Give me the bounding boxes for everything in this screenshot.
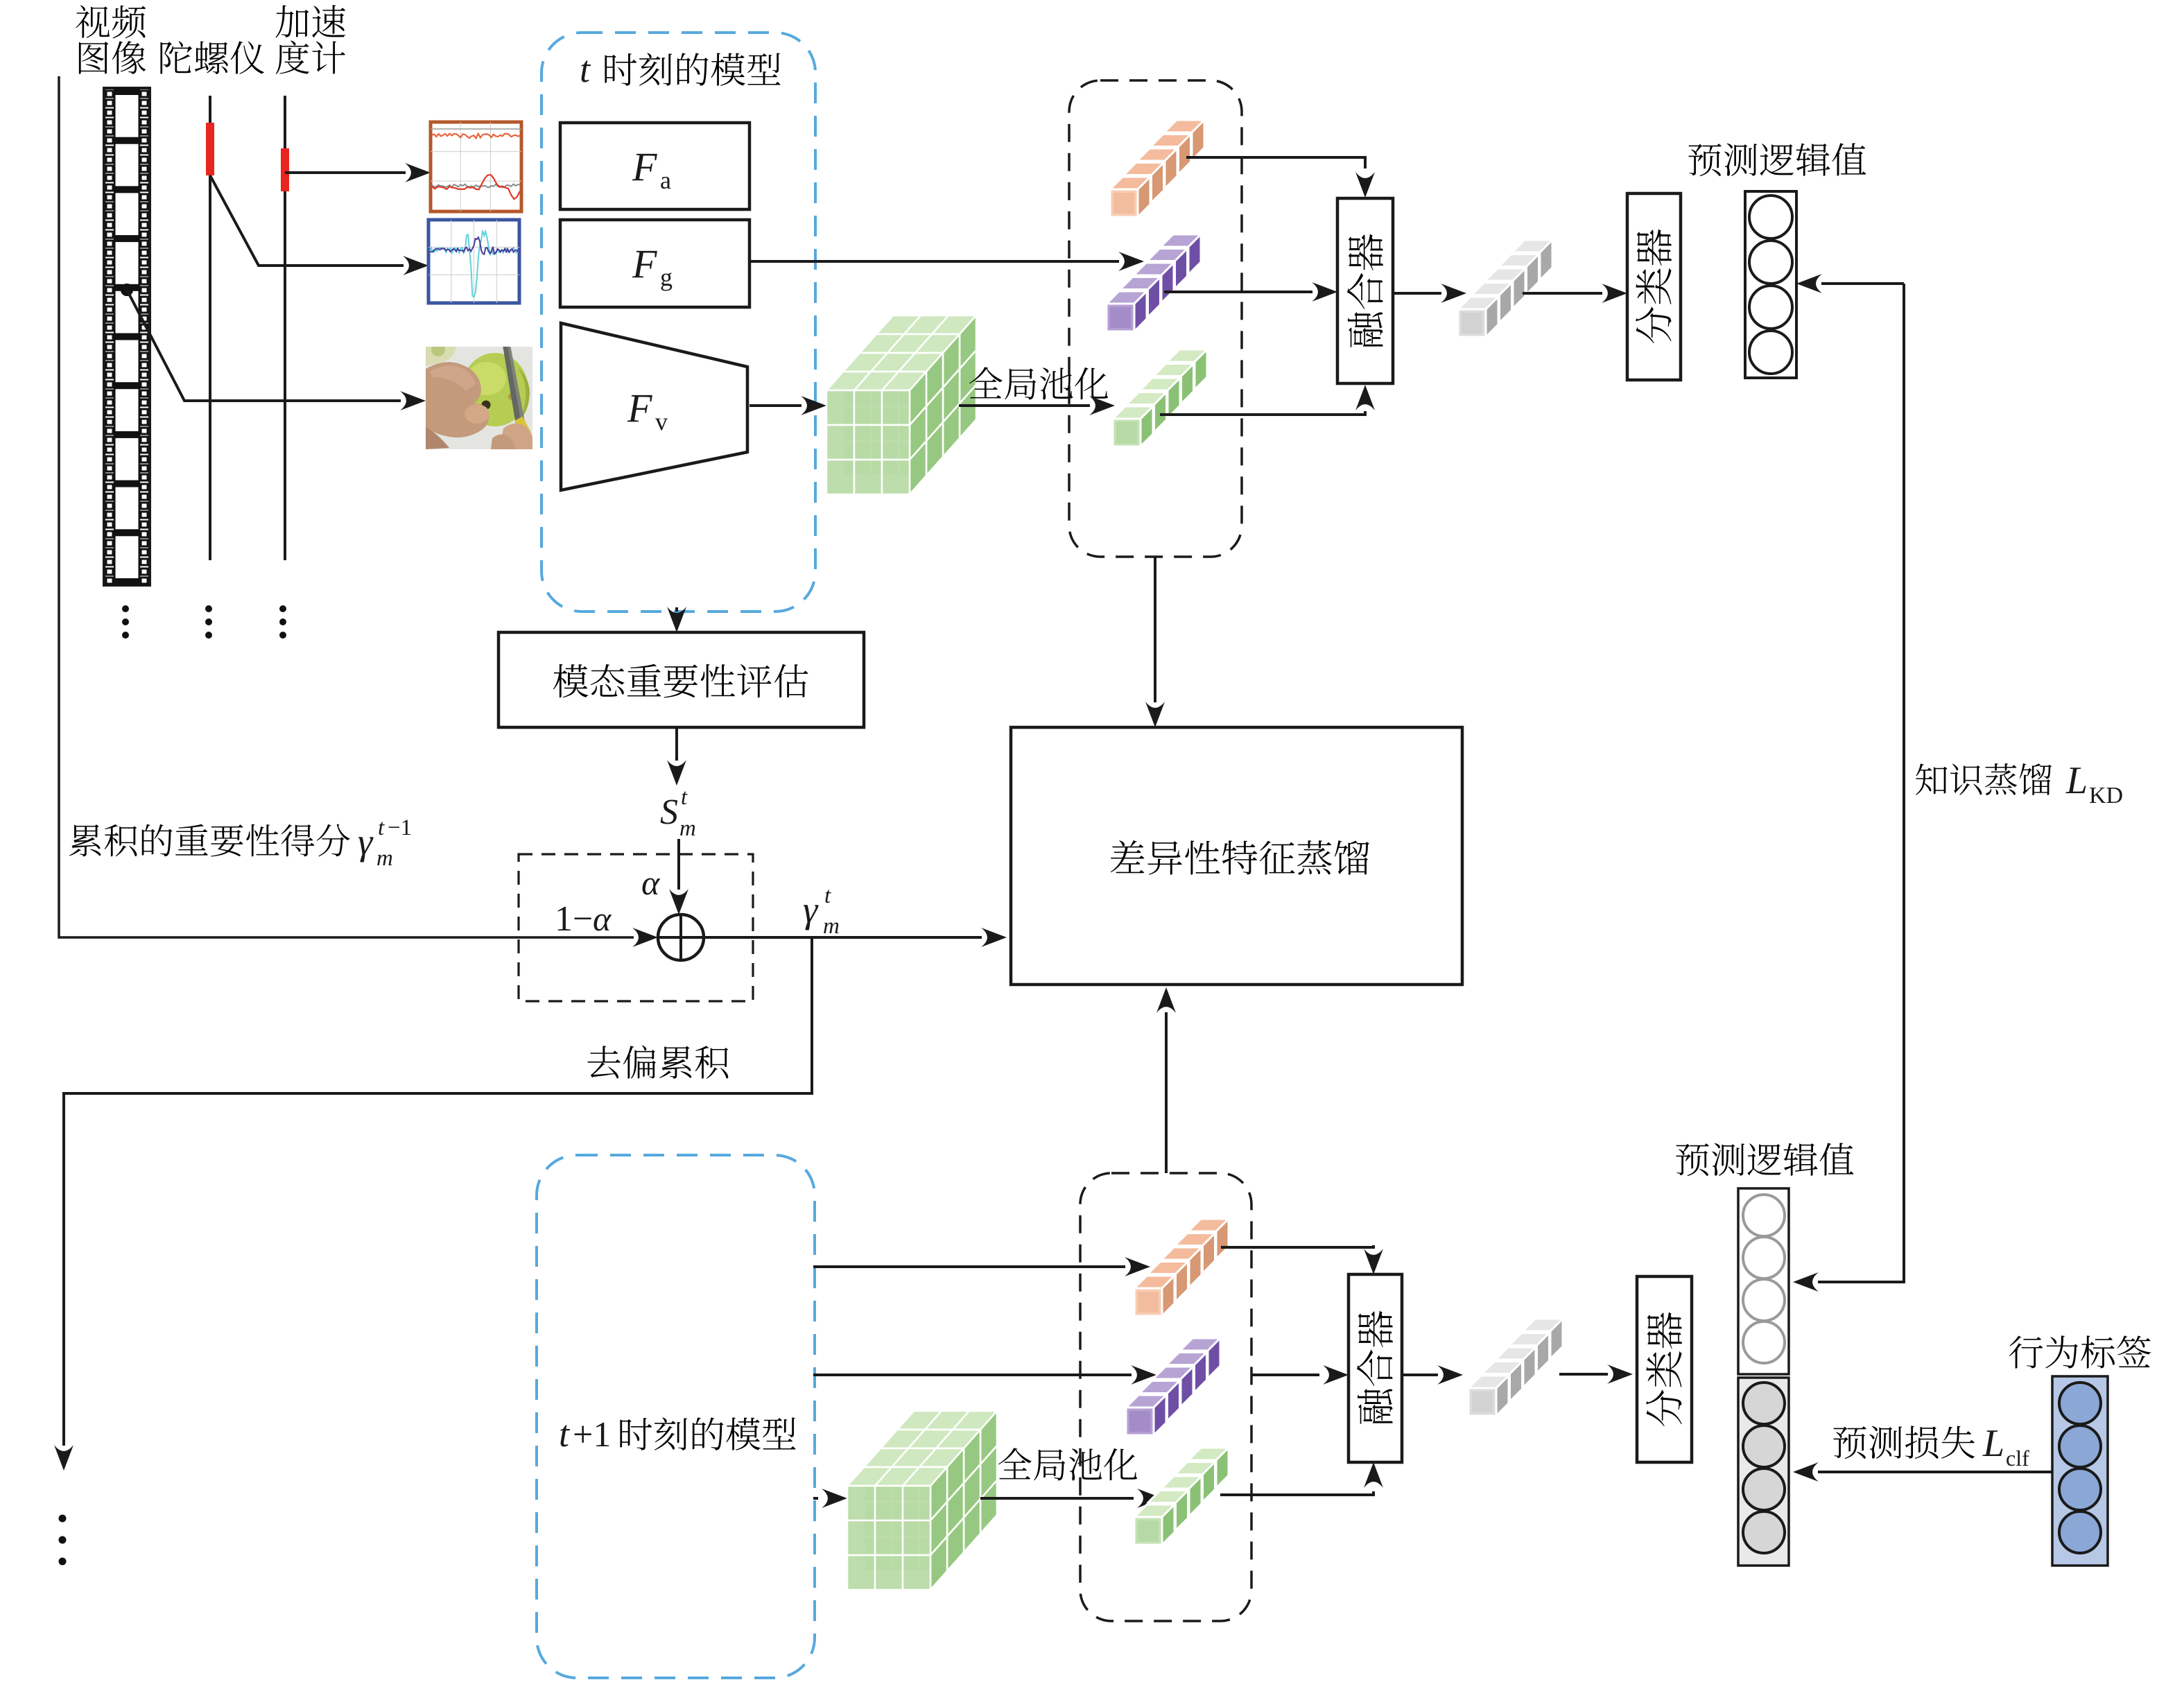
svg-text:v: v bbox=[655, 408, 668, 435]
svg-text:α: α bbox=[641, 863, 661, 902]
svg-text:L: L bbox=[2065, 759, 2088, 802]
svg-text:t: t bbox=[824, 883, 831, 908]
svg-text:m: m bbox=[823, 914, 840, 939]
svg-text:γ: γ bbox=[358, 821, 374, 863]
svg-text:+1: +1 bbox=[573, 1415, 611, 1455]
svg-text:a: a bbox=[660, 166, 671, 194]
svg-text:α: α bbox=[593, 899, 612, 938]
svg-text:F: F bbox=[627, 385, 652, 431]
svg-text:−1: −1 bbox=[388, 815, 412, 840]
svg-text:m: m bbox=[679, 816, 696, 841]
svg-text:S: S bbox=[660, 792, 678, 832]
svg-text:KD: KD bbox=[2089, 783, 2123, 808]
svg-text:L: L bbox=[1982, 1422, 2004, 1465]
svg-text:F: F bbox=[632, 241, 657, 286]
svg-text:g: g bbox=[660, 263, 673, 291]
svg-text:t: t bbox=[559, 1413, 571, 1455]
svg-text:t: t bbox=[378, 815, 385, 840]
svg-text:γ: γ bbox=[803, 889, 819, 930]
svg-text:t: t bbox=[580, 49, 591, 90]
svg-text:m: m bbox=[376, 846, 393, 871]
svg-text:clf: clf bbox=[2006, 1446, 2029, 1471]
svg-text:t: t bbox=[681, 785, 688, 810]
svg-text:1−: 1− bbox=[555, 899, 593, 939]
svg-text:F: F bbox=[632, 144, 657, 189]
